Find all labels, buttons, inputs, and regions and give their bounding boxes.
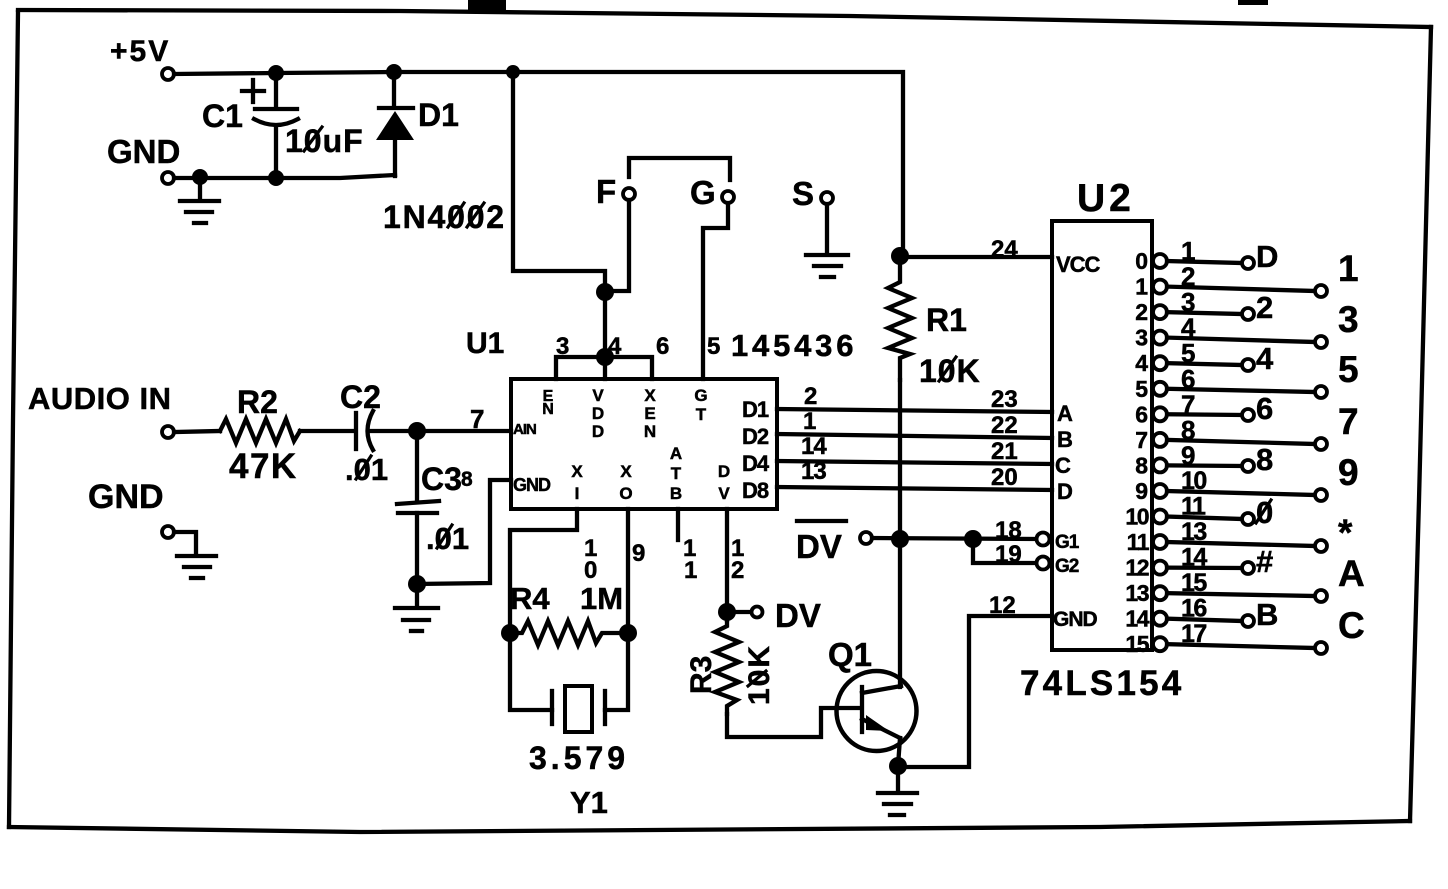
svg-text:0: 0 [584, 557, 597, 584]
svg-text:5: 5 [707, 333, 720, 360]
svg-text:D2: D2 [742, 424, 769, 449]
svg-text:3.579: 3.579 [529, 740, 629, 776]
wire output 11 to key * [1167, 542, 1315, 546]
junction R1/VCC [891, 247, 909, 265]
U1 pin 1 label [803, 408, 816, 435]
pin 14 label [1181, 544, 1207, 572]
capacitor C1 10uF [202, 73, 364, 178]
svg-text:8: 8 [1135, 452, 1148, 478]
svg-text:B: B [1057, 427, 1073, 452]
wire U1 DV pin12 down [725, 509, 729, 620]
svg-text:11: 11 [1127, 529, 1150, 555]
terminal key 3 [1315, 299, 1359, 348]
svg-text:2: 2 [1135, 299, 1148, 325]
wire audio gnd [174, 532, 196, 554]
pin 7 label [470, 404, 484, 434]
svg-text:F: F [596, 173, 616, 210]
pin 8 label [1181, 415, 1195, 445]
wire R1 bottom [898, 380, 902, 540]
svg-text:17: 17 [1181, 620, 1206, 648]
junction +5V/F-branch [506, 65, 520, 79]
wire F to junction [605, 200, 629, 291]
svg-text:12: 12 [989, 592, 1016, 619]
wire R2 to C2 [300, 429, 352, 433]
svg-text:C: C [1338, 605, 1365, 646]
terminal key 8 [1242, 442, 1273, 477]
junction emitter [889, 757, 907, 775]
pin 7 label [1181, 389, 1195, 419]
svg-text:21: 21 [991, 438, 1018, 465]
U1 pin 14 label [801, 433, 827, 460]
svg-text:9: 9 [1338, 452, 1359, 493]
svg-text:9: 9 [1181, 440, 1195, 470]
svg-text:8: 8 [461, 468, 473, 491]
terminal key 6 [1242, 391, 1273, 426]
pin 4 label [608, 333, 622, 360]
svg-text:N: N [542, 401, 554, 418]
svg-text:1N4002: 1N4002 [383, 199, 506, 235]
svg-text:10K: 10K [919, 353, 981, 389]
resistor R3 10K [685, 620, 776, 714]
junction DV [718, 603, 736, 621]
resistor R2 47K [220, 384, 300, 486]
pin 17 label [1181, 620, 1206, 648]
junction gnd/C1 [268, 170, 284, 186]
svg-text:+5V: +5V [110, 35, 170, 68]
svg-text:D8: D8 [742, 478, 769, 503]
resistor R4 1M [510, 581, 628, 645]
svg-text:1M: 1M [580, 581, 623, 616]
svg-text:14: 14 [1181, 544, 1207, 572]
pin 9 label [632, 540, 645, 567]
svg-text:#: # [1256, 544, 1273, 579]
wire /DV to U2 G1 [872, 538, 1038, 539]
svg-text:145436: 145436 [731, 328, 857, 363]
wire U1 D2 to U2 B [777, 434, 1052, 438]
U2 pin 21 label [991, 438, 1018, 465]
wire emitter to U2 GND pin12 [898, 616, 1052, 767]
svg-text:24: 24 [991, 236, 1018, 263]
svg-text:A: A [670, 444, 682, 463]
pin 11 label [1181, 493, 1206, 521]
wire U1 pins 3-4-6 bracket [556, 292, 652, 379]
svg-text:74LS154: 74LS154 [1020, 664, 1184, 703]
diode D1 1N4002 [376, 72, 506, 235]
svg-text:10: 10 [1125, 504, 1148, 530]
svg-text:9: 9 [1135, 478, 1148, 504]
svg-text:C1: C1 [202, 98, 243, 134]
svg-text:3: 3 [556, 333, 569, 360]
svg-text:R4: R4 [510, 581, 550, 616]
terminal S [792, 175, 833, 212]
pin 10 label [1181, 467, 1206, 495]
wire output 6 to key 6 [1167, 412, 1242, 417]
svg-text:8: 8 [1256, 442, 1273, 477]
svg-text:5: 5 [1135, 376, 1148, 402]
svg-text:B: B [670, 484, 682, 503]
svg-text:T: T [696, 405, 707, 424]
svg-text:N: N [644, 422, 656, 441]
junction gnd/ground-symbol [192, 169, 208, 185]
svg-text:X: X [644, 386, 656, 405]
wire output 3 to key 3 [1167, 338, 1315, 342]
U2 output labels 0-15 [1125, 248, 1149, 657]
svg-text:DV: DV [775, 597, 821, 634]
terminal /DV [796, 521, 872, 565]
svg-text:I: I [575, 484, 580, 503]
svg-text:G: G [694, 386, 707, 405]
svg-text:20: 20 [991, 464, 1018, 491]
pin 19 label [995, 541, 1022, 568]
terminal GND (audio) [88, 478, 174, 538]
junction C2/C3 [408, 422, 426, 440]
wire R3 to Q1 base [727, 708, 860, 737]
wire output 4 to key 4 [1167, 363, 1242, 365]
svg-text:13: 13 [801, 458, 826, 485]
svg-text:*: * [1338, 512, 1353, 553]
svg-text:7: 7 [1338, 401, 1359, 442]
G2 inversion bubble [1037, 557, 1050, 570]
junction F/+5V branch [596, 283, 614, 301]
svg-text:18: 18 [995, 517, 1022, 544]
svg-text:C: C [1055, 453, 1071, 478]
svg-text:15: 15 [1181, 569, 1207, 597]
svg-text:7: 7 [1135, 427, 1148, 453]
pin 12 label (U2) [989, 592, 1016, 619]
ground (top left) [180, 177, 219, 223]
wire S to ground [825, 204, 829, 252]
svg-text:.01: .01 [426, 521, 469, 556]
svg-text:G1: G1 [1055, 532, 1080, 553]
terminal G [690, 174, 734, 211]
wire output 10 to key 0 [1167, 517, 1242, 520]
svg-text:23: 23 [991, 386, 1018, 413]
IC U1 145436 [466, 327, 857, 509]
pin 6 label [1181, 364, 1195, 394]
svg-text:A: A [1057, 401, 1073, 426]
svg-text:D4: D4 [742, 451, 770, 476]
terminal +5V [110, 35, 174, 80]
wire output 9 to key 9 [1167, 491, 1315, 495]
junction R4 right [619, 624, 637, 642]
pin 5 label [707, 333, 720, 360]
svg-text:1: 1 [1135, 274, 1148, 300]
wire G to U1 pin5 [703, 203, 728, 379]
pin 12 label [731, 535, 744, 584]
svg-text:D: D [592, 404, 604, 423]
ground (S) [806, 255, 848, 277]
svg-text:3: 3 [1135, 325, 1148, 351]
wire +5V branch to U1 pin4 [513, 72, 605, 292]
svg-text:A: A [1338, 553, 1365, 594]
svg-text:GND: GND [513, 475, 551, 495]
pin 24 label [991, 236, 1018, 263]
svg-text:5: 5 [1338, 349, 1359, 390]
wire F-G bracket [629, 158, 730, 180]
pin 15 label [1181, 569, 1207, 597]
capacitor C2 .01 [340, 379, 388, 487]
wire +5V bus [174, 72, 903, 256]
pin 16 label [1181, 595, 1206, 623]
wire C2 to U1 pin7 [370, 429, 511, 433]
svg-text:AUDIO IN: AUDIO IN [28, 381, 172, 416]
svg-text:D: D [718, 462, 730, 481]
terminal key 7 [1315, 401, 1359, 450]
svg-text:4: 4 [608, 333, 622, 360]
terminal key 2 [1242, 290, 1273, 325]
pin 9 label [1181, 440, 1195, 470]
wire output 8 to key 8 [1167, 463, 1242, 468]
junction +5V/C1 [268, 65, 284, 81]
svg-text:T: T [671, 464, 682, 483]
junction /DV collector [891, 530, 909, 548]
U2 pin 23 label [991, 386, 1018, 413]
svg-text:Q1: Q1 [828, 636, 872, 673]
U2 pin 20 label [991, 464, 1018, 491]
wire output 15 to key C [1167, 644, 1315, 648]
wire U1 XI pin10 to R4 [510, 509, 577, 633]
svg-text:15: 15 [1125, 631, 1149, 657]
pin 3 label [1181, 287, 1195, 317]
svg-text:Y1: Y1 [570, 785, 608, 820]
terminal GND (top) [107, 133, 180, 184]
svg-text:D: D [1057, 479, 1073, 504]
svg-text:2: 2 [804, 383, 817, 410]
svg-text:0: 0 [1135, 248, 1148, 274]
U1 pin 13 label [801, 458, 826, 485]
svg-text:12: 12 [1125, 555, 1148, 581]
terminal key # [1242, 544, 1273, 579]
svg-text:D1: D1 [742, 397, 769, 422]
svg-text:22: 22 [991, 412, 1018, 439]
svg-text:1: 1 [803, 408, 816, 435]
svg-text:GND: GND [1053, 608, 1098, 631]
wire output 1 to key 1 [1167, 287, 1315, 291]
capacitor C3 .01 [397, 431, 469, 584]
pin 8 label [461, 468, 473, 491]
svg-text:U2: U2 [1077, 177, 1135, 220]
svg-text:D: D [1256, 239, 1278, 274]
svg-text:R1: R1 [926, 302, 967, 338]
terminal key C [1315, 605, 1365, 654]
svg-text:16: 16 [1181, 595, 1206, 623]
pin 3 label [556, 333, 569, 360]
wire U1 D8 to U2 D [777, 487, 1052, 490]
svg-text:9: 9 [632, 540, 645, 567]
pin 1 label [1181, 236, 1195, 266]
svg-text:S: S [792, 175, 814, 212]
svg-text:4: 4 [1256, 341, 1274, 376]
svg-text:X: X [620, 462, 632, 481]
junction pin4 bracket [596, 348, 614, 366]
svg-text:1: 1 [684, 557, 697, 584]
pin 6 label [656, 333, 669, 360]
svg-text:G2: G2 [1055, 556, 1079, 577]
terminal AUDIO IN [28, 381, 174, 438]
svg-text:B: B [1256, 597, 1278, 632]
svg-text:.01: .01 [345, 452, 388, 487]
svg-text:10uF: 10uF [285, 123, 364, 159]
pin 13 label [1181, 518, 1206, 546]
wire to U2 G2 [973, 539, 1038, 563]
terminal key * [1315, 512, 1353, 553]
svg-text:C3: C3 [421, 461, 462, 497]
svg-text:4: 4 [1135, 350, 1148, 376]
terminal key 4 [1242, 341, 1274, 376]
svg-text:13: 13 [1125, 580, 1148, 606]
svg-text:GND: GND [107, 133, 180, 170]
svg-text:19: 19 [995, 541, 1022, 568]
ground (C3) [395, 584, 438, 631]
junction /DV G2 branch [964, 530, 982, 548]
svg-text:G: G [690, 174, 716, 211]
wire output 2 to key 2 [1167, 312, 1242, 314]
terminal DV [727, 597, 821, 634]
svg-text:1: 1 [1338, 248, 1359, 289]
wire U1 D4 to U2 C [777, 461, 1052, 464]
wire output 5 to key 5 [1167, 389, 1315, 392]
svg-text:V: V [592, 386, 604, 405]
pin 11 label [683, 535, 697, 584]
terminal key A [1315, 553, 1365, 602]
terminal key D [1242, 239, 1278, 274]
wire audio to R2 [174, 431, 220, 432]
ground (Q1) [878, 766, 917, 815]
G1 inversion bubble [1037, 533, 1050, 546]
wire VCC to U2 pin24 [900, 255, 1052, 259]
crystal Y1 3.579 [510, 633, 629, 820]
junction +5V/D1 [386, 64, 402, 80]
transistor Q1 [828, 636, 917, 751]
terminal key 5 [1315, 349, 1359, 398]
wire output 7 to key 7 [1167, 440, 1315, 444]
junction C3/gnd [408, 575, 426, 593]
stub U1 ATB pin11 [676, 509, 680, 540]
pin 18 label [995, 517, 1022, 544]
svg-text:10: 10 [1181, 467, 1206, 495]
wire Q1 collector [898, 540, 902, 687]
U2 pin 22 label [991, 412, 1018, 439]
wire output 13 to key A [1167, 593, 1315, 596]
svg-text:O: O [619, 484, 632, 503]
svg-text:14: 14 [1125, 606, 1149, 632]
svg-text:6: 6 [1256, 391, 1273, 426]
svg-text:14: 14 [801, 433, 827, 460]
terminal key 1 [1315, 248, 1359, 297]
wire output 12 to key # [1167, 565, 1242, 570]
svg-text:6: 6 [656, 333, 669, 360]
svg-text:6: 6 [1135, 401, 1148, 427]
U1 pin 2 label [804, 383, 817, 410]
pin 4 label [1181, 313, 1196, 343]
svg-text:U1: U1 [466, 327, 504, 360]
ground (audio) [177, 556, 216, 578]
svg-text:R2: R2 [237, 384, 278, 420]
wire output 14 to key B [1167, 619, 1242, 621]
svg-text:3: 3 [1338, 299, 1359, 340]
svg-text:13: 13 [1181, 518, 1206, 546]
wire U1 D1 to U2 A [777, 409, 1052, 412]
svg-text:2: 2 [1256, 290, 1273, 325]
terminal key B [1242, 597, 1278, 632]
svg-text:X: X [571, 462, 583, 481]
wire ground bus [174, 175, 395, 178]
terminal key 0 [1242, 495, 1273, 530]
terminal F [596, 173, 635, 210]
wire U1 GND pin to C3 [417, 480, 511, 584]
wire output 0 to key D [1167, 261, 1242, 263]
wire Q1 emitter to ground [898, 738, 900, 766]
junction R4 left [501, 624, 519, 642]
U2 output pin circles 0-15 [1153, 254, 1167, 651]
svg-text:D1: D1 [418, 97, 459, 133]
svg-text:VCC: VCC [1056, 252, 1101, 277]
svg-text:V: V [718, 484, 730, 503]
svg-text:R3: R3 [685, 656, 718, 694]
resistor R1 10K [888, 256, 981, 389]
svg-text:AIN: AIN [513, 421, 536, 438]
terminal key 9 [1315, 452, 1359, 501]
IC U2 74LS154 [1020, 177, 1184, 703]
svg-text:GND: GND [88, 478, 164, 516]
svg-text:E: E [644, 404, 655, 423]
pin 5 label [1181, 338, 1195, 368]
svg-text:DV: DV [796, 528, 842, 565]
svg-text:47K: 47K [229, 447, 298, 486]
pin 2 label [1181, 262, 1195, 292]
svg-text:11: 11 [1181, 493, 1206, 521]
svg-text:2: 2 [731, 557, 744, 584]
wire U1 XO pin9 to R4 [626, 509, 630, 633]
svg-text:D: D [592, 422, 604, 441]
svg-text:7: 7 [470, 404, 484, 434]
pin 10 label [584, 535, 597, 584]
